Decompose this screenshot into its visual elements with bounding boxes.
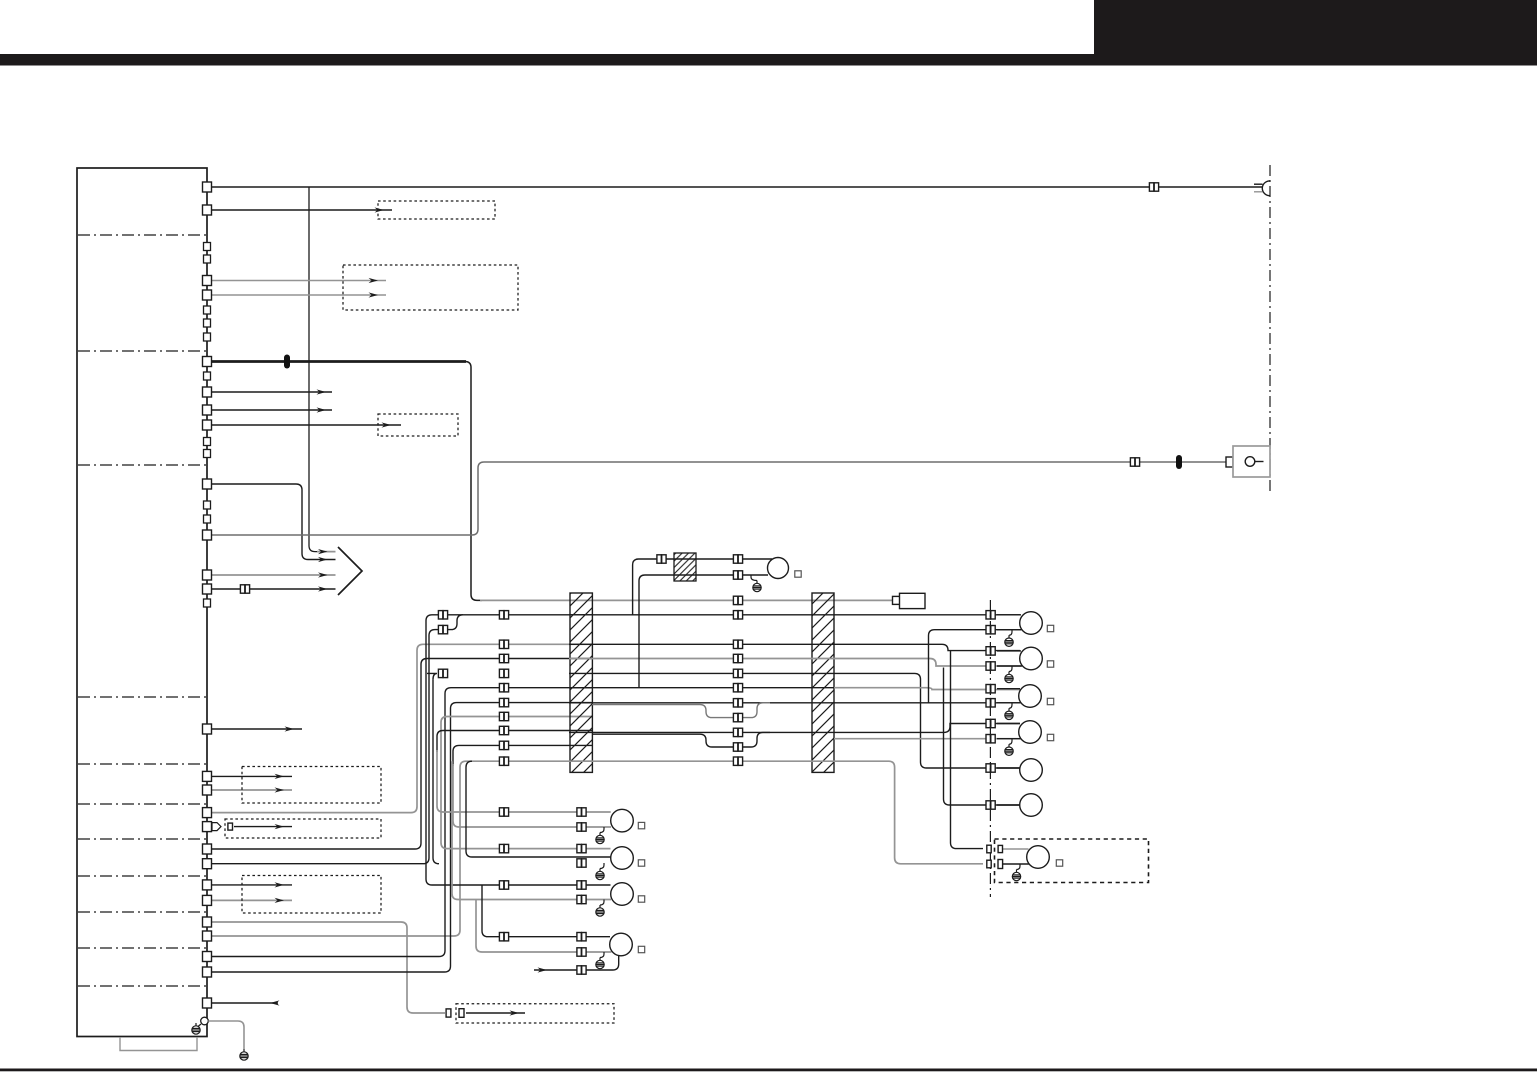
speaker SP1 <box>1020 612 1043 635</box>
marker square MQ-SP8 <box>638 860 644 866</box>
wire W7 <box>212 409 332 411</box>
fuse F2 <box>1176 455 1182 469</box>
speaker SP5 <box>1020 759 1043 782</box>
connector CN-SP4t <box>986 719 995 727</box>
wire R7 mid/right <box>569 702 1021 704</box>
speaker SP6 <box>1020 794 1043 817</box>
marker square MQ-SP7 <box>638 822 644 828</box>
marker square MQ-SP9 <box>638 896 644 902</box>
wire W18 + row R4 <box>212 659 593 850</box>
wire SP7 bottom feed <box>453 764 611 827</box>
dashed box DB1 <box>378 201 495 219</box>
connector CN-738-615 <box>733 611 742 619</box>
marker square MQ-SP1 <box>1047 625 1053 631</box>
pin PS9 <box>204 501 211 509</box>
wire W20 <box>212 884 292 886</box>
lighter socket device <box>1233 446 1270 477</box>
wire ground tap G-DB8 <box>1017 864 1021 870</box>
pin P12 <box>203 584 212 594</box>
harness bar 2 <box>812 593 834 772</box>
speaker SP3 <box>1019 685 1042 708</box>
arrowhead A-W2 <box>375 207 385 212</box>
connector CN-T1b <box>733 555 742 563</box>
wire W2 <box>212 209 392 211</box>
arrowhead A-W12 <box>318 586 328 591</box>
wire W14 <box>212 775 292 777</box>
connector CN-504-730 <box>499 726 508 734</box>
wire W26 <box>212 1002 278 1004</box>
SP3 leads <box>997 688 1020 690</box>
connector CN-504-745 <box>499 741 508 749</box>
dashed box DB7 <box>456 1004 614 1023</box>
speaker SP10 <box>610 933 633 956</box>
arrowhead A-W11 <box>318 572 328 577</box>
connector CN-SP9t2 <box>577 881 586 889</box>
connector CN-SP9t1 <box>499 881 508 889</box>
wire DB8 top feed <box>951 651 984 849</box>
pin P4 <box>203 290 212 300</box>
connector CN-SP6 <box>986 801 995 809</box>
wire W8 <box>212 424 401 426</box>
wire W16 + row R3 <box>212 644 593 812</box>
connector CN-SP10b2 <box>577 948 586 956</box>
section divider 1 <box>78 234 206 236</box>
wire W11 <box>212 574 336 576</box>
ground G-case <box>192 1023 200 1034</box>
pin P16 <box>203 808 212 818</box>
ground G-SP9 sym <box>596 905 604 916</box>
pin PS10 <box>204 515 211 523</box>
wire R4 mid/right <box>569 659 1021 667</box>
ground G-DB8 sym <box>1012 870 1020 881</box>
wire R3 mid/right <box>569 644 1020 650</box>
wire R5 left drop <box>433 679 439 863</box>
speaker SP9 <box>611 883 634 906</box>
connector CN-SP2b <box>986 662 995 670</box>
connector CN-DB8b2 <box>998 860 1003 869</box>
pin PS7 <box>204 438 211 446</box>
section divider 7 <box>78 838 206 840</box>
connector CN-SP2t <box>986 647 995 655</box>
connector CN-SP7b2 <box>577 823 586 831</box>
section divider 8 <box>78 875 206 877</box>
wire W17 <box>234 826 292 828</box>
arrowhead A-W4 <box>369 292 379 297</box>
connector CN-SP8t1 <box>499 844 508 852</box>
pin PS6 <box>204 372 211 380</box>
pin PS8 <box>204 450 211 458</box>
marker square MQ-T <box>795 571 801 577</box>
pin P23 <box>203 931 212 941</box>
connector CN-738-761 <box>733 757 742 765</box>
wire ground tap G-SP2 <box>1009 666 1012 672</box>
chassis stud circle <box>201 1017 209 1025</box>
header black block top right <box>1094 0 1537 55</box>
pin P8 <box>203 420 212 430</box>
wire ground tap G-SP8 <box>600 863 604 869</box>
connector CN-738-658 <box>733 654 742 662</box>
SP2 leads <box>997 650 1021 652</box>
arrowhead A-W13 <box>285 726 295 731</box>
wire W10 accessory <box>212 462 1226 535</box>
connector CN-738-732 <box>733 728 742 736</box>
speaker SP-DB8 <box>1027 846 1050 869</box>
pin P21 <box>203 895 212 905</box>
fuse F1 <box>284 355 290 369</box>
arrowhead A-W17 <box>275 824 285 829</box>
pin P2 <box>203 205 212 215</box>
wire ground tap G-SP7 <box>600 827 604 833</box>
dashed box DB4 <box>242 767 381 804</box>
section divider 10 <box>78 947 206 949</box>
ground G-SP8 sym <box>596 869 604 880</box>
speaker SP2 <box>1020 647 1043 670</box>
wire SP7 top feed <box>437 750 611 812</box>
connector CN-504-673 <box>499 669 508 677</box>
plug symbol P1 <box>212 823 221 831</box>
arrowhead A-W3 <box>369 278 379 283</box>
wire W5 row to motor <box>480 599 895 601</box>
connector CN-SP1t <box>986 611 995 619</box>
pin P24 <box>203 952 212 962</box>
speaker SP4 <box>1019 721 1042 744</box>
wire SP10 sense lead <box>534 956 619 970</box>
connector CN-W23 <box>446 1009 451 1017</box>
wire W24 + row R6 <box>212 688 593 957</box>
arrowhead A-W20 <box>275 882 285 887</box>
sub bracket below main unit <box>120 1037 197 1051</box>
connector CN-R1a <box>438 611 447 619</box>
pin P11 <box>203 570 212 580</box>
pin P14 <box>203 771 212 781</box>
pin P3 <box>203 276 212 286</box>
speaker SP8 <box>611 847 634 870</box>
wire SP6 feed <box>944 668 1021 806</box>
arrowhead A-W14 <box>275 774 285 779</box>
connector CN-R5 <box>438 669 447 677</box>
wire W1 branch tip <box>317 551 336 553</box>
marker square MQ-SP3 <box>1047 698 1053 704</box>
wire SP10 top feed <box>482 885 610 937</box>
marker square MQ-SP4 <box>1047 734 1053 740</box>
dashed box DB2 <box>343 265 518 310</box>
wire R6 right <box>834 688 1020 690</box>
pin P25 <box>203 967 212 977</box>
connector CN-W23b <box>459 1009 464 1018</box>
vehicle boundary dash-dot center right <box>989 600 991 897</box>
wire W25 + row R7 <box>212 703 593 972</box>
pin P5 <box>203 357 212 367</box>
connector CN-SP4b <box>986 735 995 743</box>
bottom rule <box>0 1069 1537 1072</box>
ground G-SP10 sym <box>596 958 604 969</box>
wire ground tap G-T2 <box>751 575 757 581</box>
connector CN-T2b <box>733 571 742 579</box>
pin P19 <box>203 859 212 869</box>
arrowhead A-W21 <box>275 898 285 903</box>
connector CN-738-747 <box>733 743 742 751</box>
connector CN-SP10t1 <box>499 933 508 941</box>
wire R11 mid/right <box>569 761 983 864</box>
SP5 lead <box>997 767 1020 769</box>
wire W5 vertical <box>465 362 482 601</box>
wire ground tap G-SP10 <box>600 952 604 958</box>
connector CN-738-717 <box>733 713 742 721</box>
connector CN-W17 <box>228 823 233 830</box>
connector CN-SP5 <box>986 764 995 772</box>
vehicle boundary dash-dot right top <box>1269 165 1271 493</box>
wire W27 ground lead <box>208 1021 244 1049</box>
pin P15 <box>203 785 212 795</box>
speaker SP7 <box>611 809 634 832</box>
pin P17 <box>203 822 212 832</box>
wire R9 stub <box>437 731 593 753</box>
header black bar <box>0 54 1537 66</box>
wire R10 stub <box>453 745 593 766</box>
connector CN-DB8b1 <box>987 860 991 868</box>
wire W15 <box>212 789 292 791</box>
dashed box DB6 <box>242 876 381 914</box>
arrowhead A-W8 <box>382 422 392 427</box>
wire R9 mid/right <box>569 724 1020 733</box>
pin P7 <box>203 405 212 415</box>
wire ground tap G-SP9 <box>600 900 604 906</box>
wire W3 <box>212 280 386 282</box>
section divider 6 <box>78 803 206 805</box>
arrowhead A-W6 <box>317 389 327 394</box>
pin P18 <box>203 844 212 854</box>
SP6 lead <box>997 804 1020 806</box>
connector CN-738-688 <box>733 684 742 692</box>
marker square MQ-DB8 <box>1056 860 1062 866</box>
connector CN-DB8t2 <box>998 845 1002 852</box>
wire W19 + row R2 <box>212 615 463 864</box>
connector CN-SP10t2 <box>577 933 586 941</box>
wire R9 loop <box>592 732 770 747</box>
wire ground tap G-SP4 <box>1009 739 1012 745</box>
wire W4 <box>212 294 386 296</box>
marker square MQ-SP10 <box>638 946 644 952</box>
connector CN-SP7t2 <box>577 808 586 816</box>
pin P10 <box>203 530 212 540</box>
arrowhead A1 chevron 1 <box>318 549 328 554</box>
arrowhead A-W9 <box>318 557 328 562</box>
ground G-SP7 sym <box>596 833 604 844</box>
wire R1 mid/right <box>569 614 1020 616</box>
connector CN-DB8t1 <box>987 845 991 853</box>
wire R8 / SP8 top feed <box>441 717 611 849</box>
arrowhead A-W7 <box>317 407 327 412</box>
connector CN-504-658 <box>499 654 508 662</box>
arrowhead A-W23b <box>510 1010 520 1015</box>
section divider 3 <box>78 464 206 466</box>
pin P13 <box>203 724 212 734</box>
wire W6 <box>212 391 332 393</box>
wire W22 to remote box <box>212 922 445 1013</box>
section divider 2 <box>78 350 206 352</box>
wire W23b <box>466 1012 525 1014</box>
section divider 4 <box>78 696 206 698</box>
dashed box DB8 <box>995 839 1149 883</box>
pin PS3 <box>204 306 211 314</box>
wire W12 <box>212 588 336 590</box>
pin P20 <box>203 880 212 890</box>
connector CN-504-761 <box>499 757 508 765</box>
pin PS11 <box>204 599 211 607</box>
ground G-batt <box>240 1049 248 1060</box>
wire R1 / SP9 top feed <box>426 615 611 885</box>
wire SP10 bottom feed <box>476 900 612 953</box>
connector CN-504-716 <box>499 712 508 720</box>
connector CN-T1 <box>657 555 666 563</box>
pin P6 <box>203 387 212 397</box>
dashed box DB5 <box>225 819 381 838</box>
wire ground tap G-SP3 <box>1009 703 1012 709</box>
dashed box DB3 <box>378 414 458 436</box>
speaker SP0 tweeter <box>768 558 789 579</box>
connector CN-W10b <box>1226 457 1233 467</box>
ground G-SP4 sym <box>1005 744 1013 755</box>
connector CN-SP8b2 <box>577 859 586 867</box>
connector CN-SP7t1 <box>499 808 508 816</box>
ground G-SP3 sym <box>1005 708 1013 719</box>
hatched block small <box>674 553 696 581</box>
motor device M1 <box>900 593 926 608</box>
connector CN-W10 <box>1130 458 1139 466</box>
connector CN-W5 <box>733 596 742 604</box>
arrowhead A-SP10 <box>538 967 548 972</box>
connector CN-W12 <box>240 585 249 593</box>
wire W1 main feed <box>212 186 1262 188</box>
wire T1 top branch <box>633 559 772 615</box>
DB8 leads <box>1002 848 1029 850</box>
connector CN-SP10c <box>577 966 586 974</box>
connector CN-504-702 <box>499 698 508 706</box>
wire R5 mid/right <box>569 673 1020 768</box>
wire SP8 bottom feed <box>466 761 611 857</box>
connector CN-SP8t2 <box>577 844 586 852</box>
wire W23 + row R11 <box>212 761 593 936</box>
connector CN-504-644 <box>499 640 508 648</box>
section divider 9 <box>78 911 206 913</box>
ground G-T2 sym <box>753 581 761 592</box>
ground G-SP2 sym <box>1005 672 1013 683</box>
arrowhead A-W15 <box>275 787 285 792</box>
pin PS5 <box>204 333 211 341</box>
connector CN-738-644 <box>733 640 742 648</box>
section divider 11 <box>78 985 206 987</box>
connector CN-R2a <box>438 625 447 633</box>
wire SP9 bottom feed <box>452 761 611 899</box>
ground lug wire <box>198 1024 201 1027</box>
wire SP4 bottom feed <box>834 738 1021 740</box>
connector CN-R1b <box>499 611 508 619</box>
connector CN-738-703 <box>733 699 742 707</box>
connector CN-SP3t <box>986 685 995 693</box>
wire R5 left end <box>427 673 437 679</box>
wire W5 power horiz <box>212 360 466 363</box>
SP1 leads <box>997 614 1021 616</box>
pin PS4 <box>204 319 211 327</box>
pin PS2 <box>204 255 211 263</box>
connector CN-SP3b <box>986 699 995 707</box>
antenna terminal device <box>1254 181 1270 196</box>
connector CN-738-673 <box>733 669 742 677</box>
connector CN-504-687 <box>499 684 508 692</box>
wire R6 mid <box>569 687 834 689</box>
pin P9 <box>203 479 212 489</box>
SP4 leads <box>997 723 1020 725</box>
wire T2 bottom branch <box>639 575 768 688</box>
pin PS1 <box>204 243 211 251</box>
connector CN-SP9b2 <box>577 895 586 903</box>
section divider 5 <box>78 763 206 765</box>
chevron group arrow <box>338 547 362 595</box>
wire R7 branch to SP1 bottom <box>929 630 1022 703</box>
wire R7 loop <box>592 703 770 718</box>
connector CN-W1 <box>1149 183 1158 191</box>
wire W1 branch down to chevron <box>309 187 318 552</box>
pin P22 <box>203 917 212 927</box>
wire W13 <box>212 728 302 730</box>
wire W21 <box>212 899 292 901</box>
arrowhead A-W26 <box>270 1000 280 1005</box>
wire ground tap G-SP1 <box>1009 630 1012 636</box>
wire W9 <box>212 484 336 560</box>
harness bar 1 <box>570 593 592 772</box>
marker square MQ-SP2 <box>1047 661 1053 667</box>
pin P1 <box>203 182 212 192</box>
connector CN-SP1b <box>986 626 995 634</box>
pin P26 <box>203 998 212 1008</box>
main unit box <box>77 168 207 1037</box>
connector CN-W5b <box>893 596 901 604</box>
ground G-SP1 sym <box>1005 635 1013 646</box>
